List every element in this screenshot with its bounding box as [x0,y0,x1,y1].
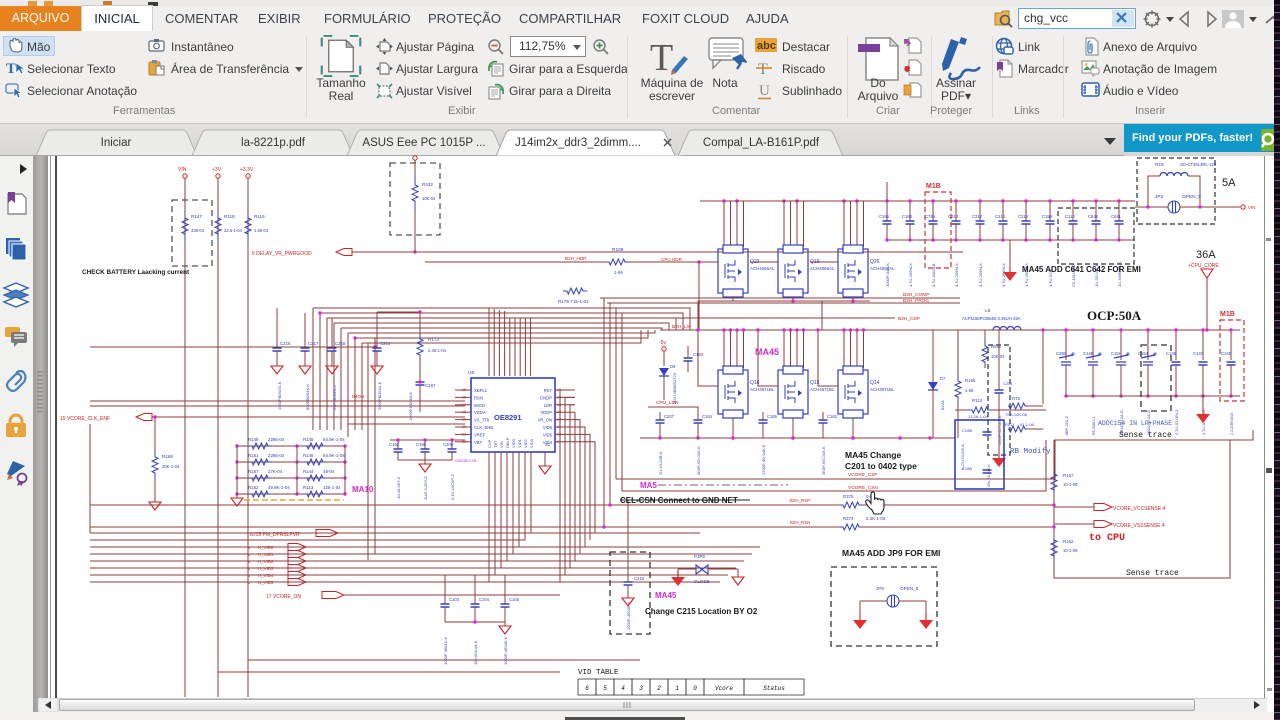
svg-text:4.7U-256M-X: 4.7U-256M-X [954,263,959,287]
capacitor C192 [394,449,403,452]
wire drain mid Q14 pin3 [856,330,858,368]
junction source mid Q14 [851,436,854,439]
power +3V [216,174,220,178]
resistor R112 [968,407,992,413]
junction C145 bot [1174,394,1177,397]
wire C206 stub [451,440,453,449]
svg-text:C167: C167 [425,383,436,388]
group Ferramentas [3,36,55,56]
wire C19B bottom stub [1049,224,1051,240]
wire diode down [663,376,665,400]
svg-text:6BP-22U-Z: 6BP-22U-Z [1065,415,1069,435]
wire bottom bundle h3 [90,452,513,554]
wire caps gnd bus [398,459,452,461]
junction drain mid Q16 2 [735,328,738,331]
wire gate mid Q14 [818,330,838,386]
svg-text:C212: C212 [972,214,983,219]
wire C214 top stub [1002,201,1004,221]
svg-text:VCORE_CSP: VCORE_CSP [848,472,878,478]
wire IC top pin1 [493,309,495,376]
svg-text:2200P-4D-04X-K: 2200P-4D-04X-K [761,444,766,475]
power -5v [662,347,666,351]
wire PM_DPRSLPVR [338,532,700,534]
svg-text:1000P-04X-K: 1000P-04X-K [885,263,890,287]
junction C206 [450,438,453,441]
wire C214 bottom stub [1002,224,1004,240]
svg-text:3K0P-6D-04X-K: 3K0P-6D-04X-K [696,446,701,475]
svg-text:2: 2 [657,685,661,692]
junction drain mid Q16 0 [722,328,725,331]
wire C748 top stub [932,201,934,221]
wire matrix row y462 [237,461,345,463]
jumper JP9 [887,595,899,607]
wire mesh h0 [600,297,960,299]
wire C10x gnd bus [445,621,505,623]
junction C192 [396,438,399,441]
ground R168 [149,502,161,510]
svg-text:VREF: VREF [474,432,486,437]
svg-text:PJP9: PJP9 [694,554,705,559]
wire bottom bundle h2 [90,452,519,547]
svg-text:22.6-1-04: 22.6-1-04 [224,228,243,233]
wire C216 top stub [1025,201,1027,221]
capacitor C215 [624,582,633,585]
svg-text:MA45: MA45 [655,591,677,600]
wire matrix row y446 [237,445,345,447]
wire C14B bot stub [1092,365,1094,396]
capacitor C207 [656,420,665,423]
svg-text:ACH4066AL: ACH4066AL [870,266,895,271]
junction R168 [153,415,156,418]
wire coil loop [1148,176,1160,207]
junction RSN drop [602,525,605,528]
wire R112 right [992,409,1046,411]
junction C14D bot [1229,394,1232,397]
wire RT2 drop [1042,330,1044,404]
wire bottom vertical C105 [504,575,506,604]
wire IC pin VDDA [455,411,471,413]
svg-text:VIN: VIN [178,167,187,173]
wire R432 bottom [414,211,416,252]
junction mesh b [353,336,356,339]
wire D7 down [932,390,934,438]
resistor R118 [215,210,221,242]
junction C210 top [954,199,957,202]
wire drain Q26 pin4 [863,201,865,247]
svg-text:R173: R173 [428,337,439,342]
wire mesh v2 [326,318,328,430]
svg-text:C206: C206 [443,442,454,447]
wire mesh down b [814,302,816,304]
pin arrow H_VID1 [288,551,306,558]
wire C164 stub mid [697,412,699,420]
pin arrow H_VID3 [288,565,306,572]
wire mesh h8 [355,330,648,338]
junction RSN [1052,525,1055,528]
wire caps feed [390,439,465,441]
svg-text:MA10: MA10 [352,485,374,494]
svg-text:C210: C210 [948,214,959,219]
wire H_VID4 [306,574,728,576]
wire mesh v4 [340,328,342,430]
wire drain mid Q16 pin1 [723,330,725,368]
wire IC pin CLK_ENB [455,426,471,428]
wire source Q23 [732,297,734,301]
junction drain mid Q14 2 [855,328,858,331]
table VID grid [578,679,804,695]
svg-text:ACH4066AL: ACH4066AL [810,266,835,271]
svg-text:B2H_HDR: B2H_HDR [565,256,587,261]
junction RT2 top [1041,328,1044,331]
junction matrix right y494 [343,492,346,495]
svg-text:30K-1-04: 30K-1-04 [162,464,180,469]
svg-text:XBPLL: XBPLL [474,388,488,393]
transistor Q16 [718,366,748,418]
svg-text:+3.3V: +3.3V [240,167,254,173]
resistor R511c [1008,426,1026,432]
wire IC pin VR_ON [555,419,575,421]
ground PJP9 right open [732,577,744,585]
capacitor C218 [328,348,337,351]
wire JP9 left down [859,601,861,618]
svg-text:C19B: C19B [1042,214,1053,219]
wire C216 bottom stub [1025,224,1027,240]
wire C212 bottom stub [979,224,981,240]
junction C214 top [1001,199,1004,202]
svg-text:VCORE_CSN: VCORE_CSN [848,485,878,491]
wire R166 down [957,403,959,438]
junction JP2 right [1198,205,1201,208]
wire C165 low mid [762,423,764,438]
svg-text:C196: C196 [416,442,427,447]
wire C215 top [627,500,629,582]
junction C15H top [1119,328,1122,331]
pin arrow H_VID5 [288,579,306,586]
wire RSP right [862,504,1054,506]
svg-text:R162: R162 [1063,539,1074,544]
power +3.3V [246,174,250,178]
wire -5v stub [663,351,665,366]
junction C154 top [1146,328,1149,331]
wire JP9 right [899,600,926,602]
svg-text:IMON: IMON [352,394,365,400]
svg-text:D9: D9 [670,364,676,369]
wire drain mid Q14 pin1 [843,330,845,368]
wire H_VID1 [306,553,752,555]
junction mid bus x660 [658,436,661,439]
junction C641 top [1117,199,1120,202]
svg-text:C748: C748 [925,214,936,219]
resistor R152 [248,491,272,497]
resistor R173 [417,335,423,359]
svg-text:4: 4 [621,685,625,692]
wire RSP left [90,504,840,506]
svg-text:R16: R16 [1155,162,1164,168]
wire IC left feed 2 [90,400,465,402]
svg-text:1.96-04: 1.96-04 [254,228,269,233]
wire IC pin GNDP [555,396,575,398]
svg-text:3: 3 [639,685,643,692]
svg-text:5A: 5A [1222,177,1236,189]
svg-text:C104: C104 [479,597,490,602]
wire mesh long h347 [90,346,375,348]
junction drain mid Q14 1 [849,328,852,331]
svg-text:MA45 Change: MA45 Change [845,450,901,460]
wire C217 low [304,351,306,366]
svg-text:4.7U-1D-06V-2: 4.7U-1D-06V-2 [1175,410,1179,435]
svg-text:C103: C103 [449,597,460,602]
capacitor C162 [819,420,828,423]
junction source mid Q15 [791,436,794,439]
svg-text:C207: C207 [664,414,675,419]
svg-text:13.3K-1-04: 13.3K-1-04 [968,414,989,419]
wire VCCSENSE [1054,506,1094,508]
ground C217 [299,366,311,374]
svg-text:VDDA: VDDA [474,410,486,415]
wire source bus drop [697,301,699,330]
capacitor C166 [883,221,892,224]
junction C104 bottom [473,620,476,623]
junction R173 C167 [418,380,421,383]
resistor R108 [606,259,628,265]
wire C14B top stub [1092,330,1094,360]
svg-text:RT2: RT2 [1012,396,1021,401]
svg-text:B2H_CSP: B2H_CSP [898,316,920,322]
junction R173 top [418,310,421,313]
junction CPU_HDR [697,260,700,263]
wire R432 top [414,160,416,175]
pin arrow H_VID4 [288,572,306,579]
svg-text:R145: R145 [303,437,314,442]
svg-text:ACH4671BL: ACH4671BL [870,387,895,392]
wire C105 bottom [504,607,506,622]
svg-text:C218: C218 [335,341,346,346]
wire bottom bundle left down a [89,424,91,533]
wire coil loop right [1188,176,1200,207]
svg-text:C217: C217 [308,341,319,346]
wire C14C top stub [1202,330,1204,360]
junction drain2 Q23 [735,199,738,202]
junction RSP [1052,503,1055,506]
wire C154 top stub [1147,330,1149,360]
diode D9 [659,368,669,376]
wire IC pin VID4 [555,441,575,443]
ground JP9 left [853,620,867,629]
wire matrix mid rail [296,446,298,494]
group Criar [856,36,900,82]
svg-text:C14B: C14B [1083,351,1094,356]
dashed box JP9 [831,567,937,646]
svg-text:ACP1166PCBB4B-3.36UH-45A: ACP1166PCBB4B-3.36UH-45A [962,316,1021,321]
group Links [995,37,1014,56]
pin arrow H_VID2 [288,558,306,565]
wire C192 lower [397,452,399,460]
svg-text:49-04: 49-04 [323,469,335,474]
svg-text:36A: 36A [1196,249,1216,261]
wire drain mid Q16 pin2 [730,330,732,368]
wire C145 top stub [1175,330,1177,360]
svg-text:1000P-4604X-K: 1000P-4604X-K [503,636,508,665]
wire mid source bus [640,437,955,439]
wire C642 bottom stub [1095,224,1097,240]
wire C748 bottom stub [932,224,934,240]
wire CPU_HDR gate3 [810,261,838,263]
svg-text:R175 715-1-04: R175 715-1-04 [558,299,589,304]
ground C10x [499,626,511,634]
junction matrix right y446 [343,444,346,447]
wire IC right route 0 [560,390,575,582]
capacitor C216 [1022,221,1031,224]
wire bottom bundle h7 [90,452,489,582]
wire C15H top stub [1120,330,1122,360]
transistor Q14 [838,366,868,418]
wire C167 down [419,385,421,412]
wire IC pin VBT [455,441,471,443]
svg-text:10K-04: 10K-04 [422,196,436,201]
svg-text:D7: D7 [940,376,946,381]
svg-text:B2H_RSP: B2H_RSP [790,498,810,503]
wire C210 top stub [955,201,957,221]
junction matrix mid y462 [295,460,298,463]
wire top cap bus lower [887,239,1135,241]
wire C206 lower [451,452,453,460]
svg-text:C214: C214 [995,214,1006,219]
wire C216 low [276,351,278,366]
svg-text:MA45: MA45 [755,347,779,357]
svg-text:RB Modify: RB Modify [1010,448,1051,456]
svg-text:LDR: LDR [544,403,552,408]
junction C145 top [1174,328,1177,331]
svg-text:C2B5: C2B5 [1056,351,1067,356]
svg-text:TBT: TBT [493,440,498,448]
junction RSP drop [608,503,611,506]
junction matrix mid y478 [295,476,298,479]
svg-text:CPU HDR: CPU HDR [661,257,683,262]
svg-text:C192: C192 [389,442,400,447]
wire DELAY_VR_PWRGOOD [352,251,963,253]
wire mesh v6 [354,338,356,430]
svg-text:VCORE_VSSSENSE 4: VCORE_VSSSENSE 4 [1113,523,1165,529]
ground matrix [231,498,243,506]
resistor R166 [955,375,961,403]
dashed box C215 [610,552,650,634]
wire C214 R173 link [377,311,420,313]
junction source mid Q16 [731,436,734,439]
wire IC top pin2 [498,310,500,376]
power arrow +CPU_CORE [1201,269,1213,278]
capacitor C212 [976,221,985,224]
svg-text:10-1-06: 10-1-06 [1063,548,1078,553]
wire C104 bottom [474,607,476,622]
wire C192 stub [397,440,399,449]
wire C14C bot stub [1202,365,1204,396]
junction matrix mid y494 [295,492,298,495]
wire VIN rail [184,178,186,697]
junction matrix right y478 [343,476,346,479]
junction C748 bottom [931,238,934,241]
svg-text:C168: C168 [902,214,913,219]
svg-text:6: 6 [585,685,589,692]
wire C214 stub [376,312,378,348]
junction drain mid Q14 0 [842,328,845,331]
strikethrough CSN text [620,499,750,501]
component box C19x [955,420,1004,489]
wire matrix right rail [344,446,346,494]
svg-text:R375: R375 [843,494,854,499]
svg-text:R116: R116 [254,214,265,219]
svg-text:C641: C641 [1111,214,1122,219]
svg-text:VR_ON: VR_ON [538,418,552,423]
svg-text:P6-330U-2: P6-330U-2 [1092,417,1096,435]
junction C641 bottom [1117,238,1120,241]
capacitor C154 [1141,355,1155,365]
wire H_VID0 [306,546,760,548]
junction mid bus x698 [696,436,699,439]
svg-text:OE8291: OE8291 [494,413,522,422]
ground right bank [1196,414,1210,423]
wire IC top pin0 [488,308,490,376]
svg-text:to CPU: to CPU [1089,533,1125,544]
junction mid bus x733 [731,436,734,439]
junction drain mid Q15 0 [782,328,785,331]
svg-text:C214: C214 [380,341,391,346]
svg-text:B2H_LX: B2H_LX [672,324,691,330]
wire PJP9 right [708,568,738,570]
junction drain Q26 [842,199,845,202]
svg-text:4.7U-0402LB: 4.7U-0402LB [931,263,936,287]
wire mesh h7 [348,330,655,333]
wire mesh h6 [341,328,662,330]
svg-text:2.2-D4R-B4X: 2.2-D4R-B4X [1230,412,1234,435]
svg-text:-5v: -5v [659,340,666,346]
dashed box C641 C642 [1058,208,1134,264]
svg-text:U6: U6 [468,370,474,376]
dashed box R432 [390,163,440,235]
svg-text:R432: R432 [422,182,433,187]
capacitor C196 [421,449,430,452]
wire JP9 right down [925,601,927,618]
junction C14B bot [1091,394,1094,397]
search highlight row [244,499,344,501]
wire H_VID5 [306,581,720,583]
junction JP2 left [1146,205,1149,208]
wire mesh v0 [312,308,314,430]
svg-text:R151: R151 [248,453,259,458]
svg-text:1: 1 [675,685,679,692]
wire matrix left rail [236,446,238,494]
svg-text:CPU_LDR: CPU_LDR [656,400,679,406]
junction C110 top [1071,199,1074,202]
wire drain mid Q16 pin4 [743,330,745,368]
dashed box C154 [1141,345,1171,411]
resistor R151 [248,459,272,465]
junction C14B top [1091,328,1094,331]
wire source mid Q16 [732,418,734,438]
svg-text:10n-604-04-K: 10n-604-04-K [473,640,478,665]
svg-text:54.9K-1-04: 54.9K-1-04 [323,453,345,458]
wire drain Q19 pin3 [796,201,798,247]
svg-text:336-04: 336-04 [191,228,205,233]
dashed box battery leak [172,200,212,266]
svg-text:R147: R147 [191,214,202,219]
wire sense loop outer [1054,430,1253,440]
wire JP2 right [1180,206,1240,208]
junction gate mid Q16 [696,328,699,331]
capacitor C153 [684,358,693,361]
capacitor C165 [759,420,768,423]
dashed box M1B top [925,192,951,268]
svg-text:C15H: C15H [1111,351,1122,356]
